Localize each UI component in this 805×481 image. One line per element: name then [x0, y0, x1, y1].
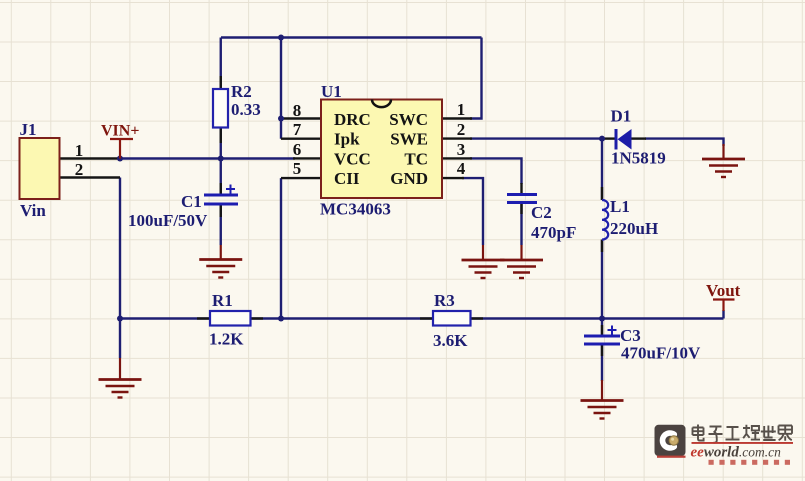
wire C3 bottom: [601, 345, 603, 381]
svg-text:4: 4: [457, 159, 466, 178]
svg-text:1: 1: [457, 100, 466, 119]
node bottom left: [117, 316, 123, 322]
svg-text:R1: R1: [212, 291, 233, 310]
node R2/C1/rail: [218, 156, 224, 162]
capacitor C2 plates: [507, 195, 537, 203]
svg-text:R3: R3: [434, 291, 455, 310]
wire L1 bottom: [601, 240, 603, 319]
pin R2 bottom: [220, 128, 222, 144]
wire bottom left ground drop: [119, 319, 121, 359]
labels navy: [20, 82, 702, 363]
logo eeworld.com.cn: [691, 445, 782, 461]
logo chinese title jie: [779, 426, 793, 441]
pin U1-8: [281, 117, 321, 119]
pin L1 bottom: [601, 240, 603, 253]
net labels dark red: [101, 123, 741, 301]
svg-text:1N5819: 1N5819: [611, 149, 666, 168]
pin C1 top: [220, 183, 222, 194]
svg-text:J1: J1: [20, 120, 37, 139]
logo chinese title dian: [693, 425, 793, 443]
pin R1 left: [197, 317, 210, 319]
wire bottom rail: [120, 317, 724, 319]
svg-text:2: 2: [75, 160, 84, 179]
svg-text:SWE: SWE: [390, 130, 428, 149]
pin C3 top: [601, 325, 603, 335]
pin U1-4: [442, 177, 464, 179]
U1 notch: [372, 100, 391, 108]
wire C1 top: [220, 159, 222, 195]
connector J1: [20, 138, 60, 199]
svg-text:1.2K: 1.2K: [209, 330, 244, 349]
svg-text:0.33: 0.33: [231, 100, 261, 119]
logo square: [655, 425, 686, 456]
op-amp U1 MC34063 body: [321, 100, 442, 199]
svg-text:VCC: VCC: [334, 150, 371, 169]
resistor R1 body: [210, 311, 251, 326]
wire pin1 up right: [470, 38, 482, 119]
svg-text:R2: R2: [231, 82, 252, 101]
logo chinese title gong: [726, 427, 740, 440]
wire Vout drop: [722, 310, 724, 319]
wire pin2 to D1 node: [470, 137, 602, 139]
pin R3 left: [420, 317, 433, 319]
capacitor C1 plus: [226, 185, 235, 194]
svg-text:D1: D1: [611, 107, 632, 126]
pin numbers black: [75, 100, 466, 179]
pin U1-1: [442, 117, 472, 119]
svg-text:470pF: 470pF: [531, 223, 576, 242]
svg-text:470uF/10V: 470uF/10V: [621, 344, 701, 363]
wire L1 top: [601, 139, 603, 200]
node D1/L1: [599, 136, 605, 142]
svg-text:3.6K: 3.6K: [433, 331, 468, 350]
power port VIN+: [110, 139, 133, 159]
node pin5/rail: [278, 316, 284, 322]
wire R2 bottom to VCC rail: [220, 128, 222, 159]
wire VCC rail: [120, 157, 295, 159]
pin C2 top: [520, 183, 522, 193]
pin names black: [334, 110, 428, 188]
capacitor C1 plates: [204, 195, 238, 204]
pin R2 top: [220, 76, 222, 89]
svg-text:U1: U1: [321, 82, 342, 101]
pin J1-1: [59, 157, 120, 159]
logo red slogan: [709, 460, 791, 465]
svg-text:6: 6: [293, 140, 302, 159]
wire R2 top drop: [220, 38, 222, 90]
svg-text:C2: C2: [531, 203, 552, 222]
wire D1 to right ground corner: [645, 139, 724, 146]
wire pin3 to C2: [470, 158, 522, 184]
pins (black): [59, 76, 646, 356]
wire pin5 down: [280, 178, 282, 318]
logo gold ball: [669, 436, 678, 445]
svg-text:MC34063: MC34063: [320, 200, 391, 219]
resistor R2 body: [213, 89, 228, 128]
ground right of D1: [702, 144, 745, 177]
ground under C1: [199, 245, 242, 278]
pin U1-2: [442, 137, 472, 139]
svg-text:3: 3: [457, 140, 466, 159]
pin U1-5: [281, 177, 321, 179]
ground under C3: [581, 380, 624, 419]
pin U1-7: [281, 137, 321, 139]
svg-text:8: 8: [293, 101, 302, 120]
svg-text:7: 7: [293, 120, 302, 139]
logo eeworld: [655, 425, 794, 465]
svg-text:2: 2: [457, 120, 466, 139]
pin D1 right: [632, 137, 647, 139]
pin J1-2: [59, 176, 120, 178]
svg-text:100uF/50V: 100uF/50V: [128, 211, 208, 230]
svg-text:TC: TC: [404, 150, 428, 169]
svg-text:C3: C3: [620, 326, 641, 345]
wire J1 pin2 down: [119, 178, 121, 319]
inductor L1: [602, 200, 608, 240]
svg-text:Vin: Vin: [20, 201, 46, 220]
svg-text:5: 5: [293, 159, 302, 178]
pin U1-6: [293, 157, 321, 159]
logo red underline: [692, 442, 794, 444]
svg-text:L1: L1: [610, 197, 630, 216]
ground symbols: [99, 144, 746, 419]
wire C3 top: [601, 319, 603, 336]
ground under U1 pin4: [462, 245, 505, 278]
wire C1 bottom: [220, 205, 222, 245]
svg-text:1: 1: [75, 141, 84, 160]
wire vertical to pins 8 7: [280, 38, 282, 139]
wire C2 bottom: [520, 203, 522, 245]
logo chinese title zi: [709, 427, 723, 443]
node VIN+: [117, 156, 123, 162]
capacitor C3 plates: [584, 336, 620, 344]
node pin8: [278, 116, 284, 122]
logo C crescent: [662, 433, 674, 448]
pin R1 right: [251, 317, 264, 319]
svg-text:220uH: 220uH: [610, 219, 658, 238]
wire top rail: [221, 36, 482, 38]
node C3/Vout: [599, 316, 605, 322]
logo chinese title cheng: [743, 425, 760, 440]
capacitor C3 plus: [608, 326, 617, 335]
pin C3 bottom: [601, 345, 603, 356]
wire pin4 to ground: [462, 178, 483, 245]
pin R3 right: [471, 317, 484, 319]
svg-text:Vout: Vout: [706, 281, 741, 300]
logo chinese title shi: [761, 426, 776, 441]
pin C2 bottom: [520, 203, 522, 214]
pin C1 bottom: [220, 205, 222, 217]
svg-text:GND: GND: [390, 169, 428, 188]
svg-text:DRC: DRC: [334, 110, 371, 129]
resistor R3 body: [433, 311, 471, 326]
pin D1 left: [602, 137, 615, 139]
svg-text:Ipk: Ipk: [334, 130, 360, 149]
svg-text:VIN+: VIN+: [101, 123, 139, 140]
svg-text:SWC: SWC: [389, 110, 428, 129]
ground bottom left: [99, 358, 142, 398]
svg-text:C1: C1: [181, 192, 202, 211]
svg-text:eeworld.com.cn: eeworld.com.cn: [691, 445, 782, 461]
ground under C2: [500, 245, 543, 278]
pin L1 top: [601, 187, 603, 200]
power port Vout: [713, 300, 735, 312]
pin U1-3: [442, 157, 472, 159]
svg-text:CII: CII: [334, 169, 360, 188]
node top rail / pins87: [278, 35, 284, 41]
diode D1: [615, 129, 632, 150]
